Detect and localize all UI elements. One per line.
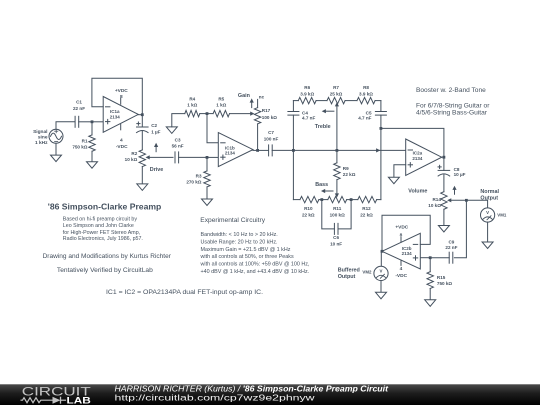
svg-text:Leo Simpson and John Clarke: Leo Simpson and John Clarke [63,223,134,229]
resistor R8 [357,97,375,103]
svg-text:C3: C3 [175,137,181,142]
wire VM2 to ground [380,281,382,293]
ground below R14 [438,226,449,233]
wire C4 branch top [292,101,294,112]
wire C6 loop [322,200,351,229]
capacitor C7 [269,145,273,156]
capacitor C3 [175,152,179,163]
label C3 56 nF [172,137,184,148]
svg-text:10 µF: 10 µF [454,172,466,177]
svg-text:http://circuitlab.com/cp7wz9e2: http://circuitlab.com/cp7wz9e2phnyw [115,393,316,403]
label IC2b pin 4 -VDC [395,266,407,279]
node bass-left junction [320,198,323,201]
svg-text:2134: 2134 [110,114,121,119]
wire R1 to ground [91,151,93,161]
svg-text:Bandwidth: < 10 Hz to > 20 kHz: Bandwidth: < 10 Hz to > 20 kHz. [201,232,278,238]
svg-text:Tentatively Verified by Circui: Tentatively Verified by CircuitLab [57,267,153,274]
svg-text:Gain: Gain [238,93,250,99]
wire R15 to ground [429,289,431,300]
wire mid rail to R9 [336,150,338,162]
label C9 22 nF [445,240,457,250]
wire node D to VM1 [466,200,487,208]
label IC2b pin 8 +VDC [395,224,408,238]
svg-text:R5: R5 [218,96,224,101]
wire IC1b output to C7 [253,149,268,151]
wire mid rail C7 to IC2a - [272,149,406,151]
svg-text:IC1 = IC2 = OPA2134PA dual FET: IC1 = IC2 = OPA2134PA dual FET-input op-… [106,289,263,296]
svg-text:1 kΩ: 1 kΩ [216,103,226,108]
svg-text:22 nF: 22 nF [73,106,85,111]
wire node C down to IC1b - input [207,114,218,143]
ground below R1 [87,162,98,169]
label R8 3.9 k [359,85,373,96]
capacitor C9 [449,252,453,263]
wire R2 wiper to C3 [150,156,173,158]
svg-text:R9: R9 [343,166,349,171]
label R14 10 k [428,197,441,208]
op-amp IC1a [103,97,138,133]
svg-text:Experimental Circuitry: Experimental Circuitry [200,217,266,224]
label C1 22 nF [73,100,85,111]
svg-text:10 kΩ: 10 kΩ [125,157,138,162]
node D junction [465,199,468,202]
label R3 270 k [186,173,202,184]
wire IC2b feedback [382,215,430,251]
svg-text:4.7 nF: 4.7 nF [302,115,315,120]
svg-text:+VDC: +VDC [115,88,128,94]
svg-text:Treble: Treble [315,124,331,130]
label C2 1 uF [151,123,160,134]
svg-text:nc: nc [259,94,265,99]
svg-text:10 nF: 10 nF [330,241,342,246]
wire R17 bottom to output node [257,124,259,150]
svg-text:-VDC: -VDC [116,144,128,150]
IC note line [106,289,263,296]
wire C8 to R14 [443,175,445,192]
ground at R4 [166,127,177,133]
wire C1 to node A [79,121,92,123]
svg-text:Buffered: Buffered [338,267,360,273]
label Normal Output [480,189,499,202]
svg-text:R11: R11 [333,206,342,211]
svg-text:2134: 2134 [412,156,423,161]
wire R2 to ground [141,167,143,184]
potentiometer R7 [327,97,345,103]
wire C4 to bass rail [292,115,294,200]
wire R3 to ground [206,187,208,199]
svg-text:10 kΩ: 10 kΩ [428,203,441,208]
svg-text:+40 dBV @ 1 kHz, and +43.4 dBV: +40 dBV @ 1 kHz, and +43.4 dBV @ 10 kHz. [201,269,310,275]
resistor R4 [185,110,200,116]
svg-text:Signal: Signal [33,129,47,135]
svg-text:8: 8 [120,94,123,100]
label IC1a pin 4 -VDC [116,138,128,151]
annotation flow arrow on mid rail [376,148,380,152]
wire node B down to R3 [206,157,208,171]
resistor R1 [89,135,95,151]
node bass-right junction [350,198,353,201]
R7 wiper arrow [335,102,339,150]
label R5 1 k [216,96,226,107]
CircuitLab logo text LAB [67,395,91,405]
title text '86 Simpson-Clarke Preamp [48,202,162,211]
wire IC1a output down to C2 [141,115,143,127]
wire node D down to C9 [454,200,466,257]
node mid-rail-left junction [292,149,295,152]
capacitor C2 (polarized) [137,122,149,133]
label C5 4.7 nF [358,110,372,120]
footer title line [115,384,389,393]
potentiometer R14 [441,192,452,210]
guitar note [416,102,489,116]
svg-text:1 kHz: 1 kHz [35,140,48,146]
annotation arrow Volume [452,186,456,195]
svg-text:R15: R15 [437,275,446,280]
svg-text:For 6/7/8-String Guitar or: For 6/7/8-String Guitar or [416,102,489,109]
label Gain [238,93,250,99]
label R11 100 k [330,206,345,217]
wire C3 to node B [179,156,207,158]
wire V1 top to C1 [56,122,75,130]
capacitor C4 [288,112,299,116]
svg-text:100 kΩ: 100 kΩ [262,115,277,120]
wire R4 to R5 [200,113,213,115]
svg-text:V: V [380,268,383,273]
potentiometer R2 [139,150,150,167]
wire C2 to R2 [141,132,143,150]
svg-text:4: 4 [400,266,403,272]
svg-text:R10: R10 [304,206,313,211]
wire C9 to node E [430,257,449,259]
svg-text:Output: Output [480,195,498,201]
label Volume [408,189,427,195]
wire R17 top nc stub [257,99,259,107]
svg-text:4: 4 [120,138,123,144]
svg-text:R1: R1 [82,138,88,143]
op-amp IC2a [406,139,442,175]
label VM1 [497,213,507,218]
svg-text:Maximum Gain = +21.5 dBV @ 1 k: Maximum Gain = +21.5 dBV @ 1 kHz [201,247,291,253]
potentiometer R17 [254,108,260,124]
booster heading [416,87,486,94]
wire C5 down to bass rail [380,115,382,200]
voltage source V1 (Signal sine 1 kHz) [49,129,63,143]
svg-text:with all controls at 50%, or t: with all controls at 50%, or three Peaks [200,254,294,260]
node IC2b output junction [381,250,384,253]
wire R14 to ground [443,209,445,225]
wire R14 wiper to node D [451,199,466,201]
node mid-rail R9 junction [336,149,339,152]
label R7 25 k [330,85,343,96]
wire treble top rail segs [293,100,381,102]
experimental circuitry heading [200,217,266,224]
capacitor C5 [375,112,386,116]
svg-text:C7: C7 [268,130,274,135]
svg-text:R4: R4 [189,96,195,101]
footer url line [115,393,316,403]
svg-text:Output: Output [338,274,356,280]
svg-text:22 nF: 22 nF [445,245,457,250]
ground at IC2a + [388,177,399,184]
annotation arrow Drive [154,143,158,152]
label R9 22 k [343,166,356,177]
svg-text:Normal: Normal [480,189,499,195]
svg-text:8: 8 [400,232,403,238]
svg-text:270 kΩ: 270 kΩ [186,180,201,185]
label C8 10 uF [454,167,466,177]
label Bass [315,182,328,188]
footer bar background [0,384,540,405]
CircuitLab logo text CIRCUIT [22,384,92,398]
svg-text:VM2: VM2 [362,270,372,275]
ground below VM1 [482,242,493,249]
label R4 1 k [187,96,197,107]
svg-text:with all controls at 100%: +59: with all controls at 100%: +59 dBV @ 100… [200,262,311,268]
op-amp IC2b (mirrored) [382,233,420,269]
resistor R6 [298,97,316,103]
svg-text:R3: R3 [196,173,202,178]
svg-text:100 kΩ: 100 kΩ [330,212,345,217]
svg-text:R7: R7 [333,85,339,90]
svg-text:LAB: LAB [67,395,91,405]
IC1a pin 8 stub [120,98,122,104]
specs paragraph [200,232,311,275]
verified line [57,267,153,274]
svg-text:C1: C1 [76,100,82,105]
wire node A to IC1a + input [92,121,103,123]
wire node E to IC2b + input [420,257,430,259]
label nc [259,94,265,99]
resistor R10 [300,196,319,202]
svg-text:Drive: Drive [150,167,164,173]
label R17 100 k [262,108,277,120]
resistor R15 [427,272,433,289]
voltmeter VM2 [374,266,388,280]
label R15 750 k [437,275,452,286]
wire V1 to ground [55,143,57,155]
label R1 750 k [72,138,88,149]
svg-text:25 kΩ: 25 kΩ [330,91,343,96]
wire R9 to R11 wiper [335,180,339,198]
ground below V1 [51,155,62,162]
svg-text:Drawing and Modifications by K: Drawing and Modifications by Kurtus Rich… [43,253,171,260]
capacitor C1 [75,116,79,127]
svg-text:4.7 nF: 4.7 nF [358,115,371,120]
svg-text:+VDC: +VDC [395,224,408,230]
wire node E to R15 [429,258,431,272]
wire node A down to R1 [91,122,93,135]
label IC1a pin 8 +VDC [115,88,128,100]
ground below VM2 [376,292,387,299]
svg-text:'86 Simpson-Clarke Preamp: '86 Simpson-Clarke Preamp [48,202,162,211]
wire VM1 to ground [487,222,489,242]
IC2b pin 4 stub [400,260,402,265]
svg-text:R8: R8 [363,85,369,90]
svg-text:R2: R2 [131,151,137,156]
ground below R2 [137,184,148,191]
svg-text:22 kΩ: 22 kΩ [360,212,373,217]
svg-text:C6: C6 [333,235,339,240]
node B junction [206,156,209,159]
svg-text:sine: sine [38,134,48,140]
label Treble [315,124,331,130]
svg-text:3.9 kΩ: 3.9 kΩ [359,91,373,96]
annotation arrow Treble [322,109,334,113]
label R10 22 k [302,206,315,217]
resistor R12 [358,196,377,202]
label R6 3.9 k [300,85,314,96]
svg-text:56 nF: 56 nF [172,143,184,148]
label C7 100 nF [264,130,279,141]
svg-text:1 kΩ: 1 kΩ [187,103,197,108]
svg-text:C2: C2 [151,123,157,128]
wire bass rail segs [293,199,381,201]
node C5 feedback junction [380,127,383,130]
voltmeter VM1 [481,208,495,222]
node IC1b output junction [256,149,259,152]
capacitor C6 [334,223,338,234]
svg-text:-VDC: -VDC [395,273,407,279]
wire ground to R4 [172,114,185,127]
wire node B to IC1b + input [207,156,218,158]
wire IC2a feedback [381,128,444,157]
svg-text:2134: 2134 [402,251,413,256]
svg-text:22 kΩ: 22 kΩ [343,172,356,177]
op-amp IC1b [218,133,253,167]
svg-text:2134: 2134 [225,151,236,156]
svg-text:1 µF: 1 µF [151,129,160,134]
IC2b pin 8 stub [400,238,402,243]
resistor R5 [213,110,229,116]
svg-text:100 nF: 100 nF [264,136,279,141]
credit paragraph [63,217,143,243]
label R12 22 k [360,206,373,217]
svg-text:3.9 kΩ: 3.9 kΩ [300,91,314,96]
label V1 Signal sine 1 kHz [33,129,48,146]
svg-text:750 kΩ: 750 kΩ [72,144,87,149]
svg-text:Volume: Volume [408,189,427,195]
svg-text:22 kΩ: 22 kΩ [302,212,315,217]
resistor R9 [334,163,340,180]
wire IC2a output stub [442,156,444,158]
node IC2a output junction [443,156,446,159]
svg-text:R12: R12 [362,206,371,211]
svg-text:Bass: Bass [315,182,328,188]
svg-text:4/5/6-String Bass-Guitar: 4/5/6-String Bass-Guitar [416,110,487,117]
svg-text:Usable Range: 20 Hz to 20 kHz.: Usable Range: 20 Hz to 20 kHz. [201,239,278,245]
wire IC2a + input to ground [394,165,406,177]
label Drive [150,167,164,173]
wire R5 to R17 wiper [230,112,255,116]
svg-text:VM1: VM1 [497,213,507,218]
label R2 10 k [125,151,138,162]
capacitor C8 (polarized) [438,165,450,176]
svg-text:Booster w. 2-Band Tone: Booster w. 2-Band Tone [416,87,486,94]
node IC1a output junction [141,113,144,116]
potentiometer R11 [328,196,347,202]
svg-text:C9: C9 [448,240,454,245]
annotation arrow Bass [321,189,333,193]
svg-text:750 kΩ: 750 kΩ [437,281,452,286]
node E junction [429,256,432,259]
svg-text:Based on hi-fi preamp circuit: Based on hi-fi preamp circuit by [63,217,138,223]
svg-text:V: V [486,210,489,215]
svg-text:R6: R6 [304,85,310,90]
ground below R15 [425,300,436,307]
svg-text:C8: C8 [454,167,460,172]
label C4 4.7 nF [302,110,315,120]
svg-text:R17: R17 [262,108,271,113]
label Buffered Output [338,267,360,280]
resistor R3 [204,171,210,187]
drawing credit line [43,253,171,260]
label VM2 [362,270,372,275]
wire IC1a feedback loop [92,78,142,114]
IC1a pin 4 stub [120,124,122,129]
label C6 10 nF [330,235,342,246]
wire IC2b output to VM2 [380,251,382,266]
svg-text:for High-Power FET Stereo Amp,: for High-Power FET Stereo Amp, [63,230,140,236]
wire IC2a output to C8 [443,157,445,170]
wire IC1a output stub [138,114,142,116]
svg-text:R14: R14 [432,197,441,202]
node A junction [91,120,94,123]
CircuitLab logo squiggle (resistor + diode) [21,397,67,404]
node C junction [206,112,209,115]
wire C5 branch top [380,101,382,112]
annotation arrow Gain [250,98,254,107]
ground below R3 [202,199,213,206]
svg-text:Radio Electronics, July 1986,: Radio Electronics, July 1986, p57. [63,236,143,242]
